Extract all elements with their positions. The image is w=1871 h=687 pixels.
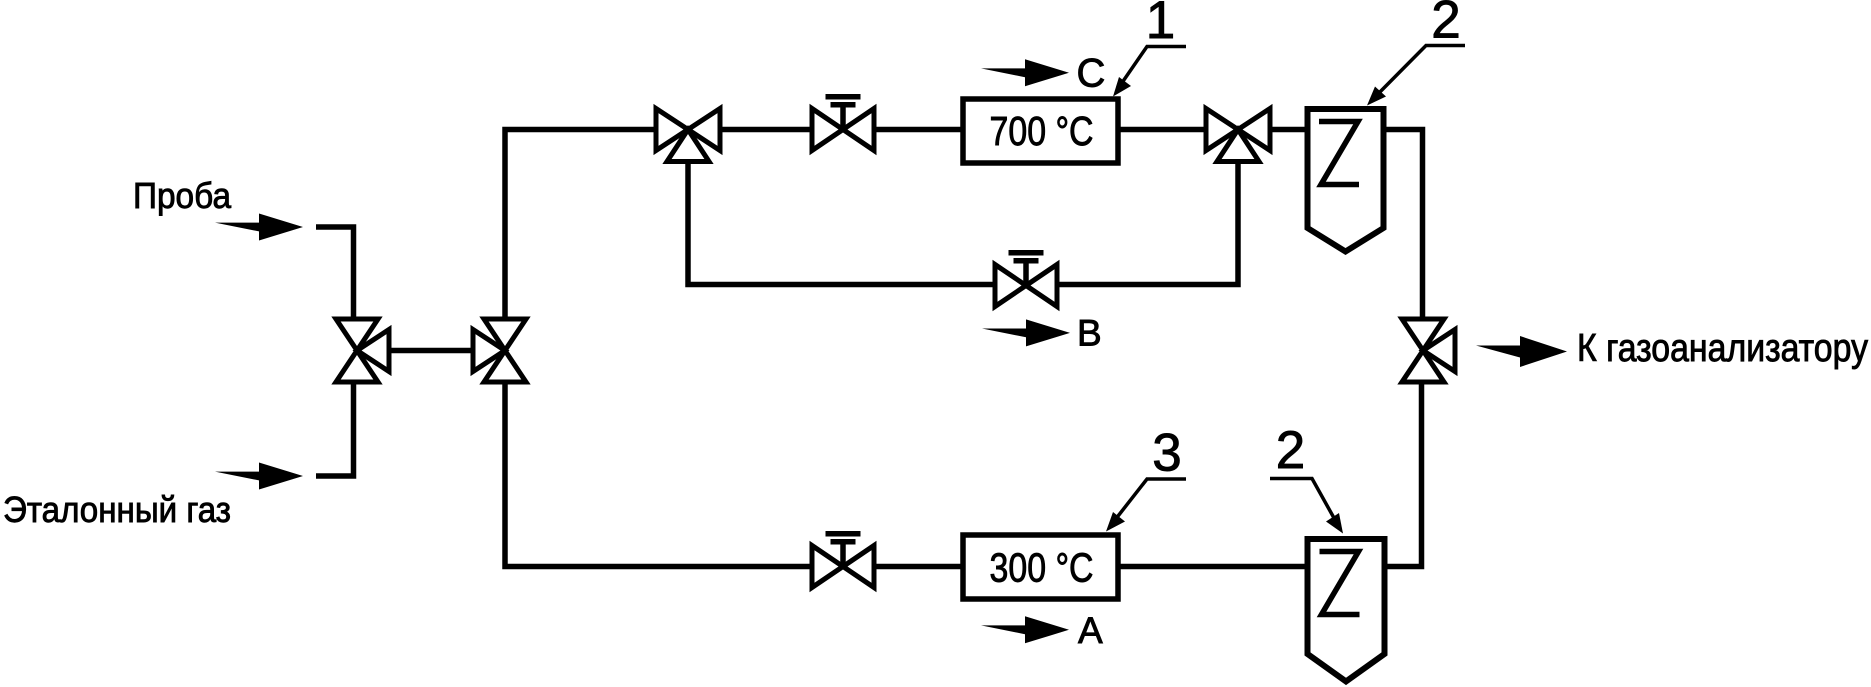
wire: G1 to heater 700 (872, 127, 963, 133)
callout leader 3 (1111, 479, 1186, 525)
callout leader 2 (1372, 46, 1465, 101)
wire: bypass right leg to V4 bottom (1056, 160, 1238, 285)
globe valve G3 (bottom rail) (812, 531, 874, 588)
flow arrow: sample inlet (215, 214, 303, 241)
valve V3 three-way (top rail / bypass) (656, 109, 720, 162)
svg-text:Проба: Проба (133, 175, 232, 216)
wire: V1 to V2 horizontal (385, 348, 475, 354)
svg-text:К газоанализатору: К газоанализатору (1577, 327, 1868, 370)
separator S1 (condenser pot, top line) (1308, 109, 1384, 252)
heater 1: 700 C box (963, 99, 1118, 163)
wire: S1 right elbow down to valve V5 top (1382, 130, 1423, 322)
svg-text:B: B (1077, 313, 1102, 354)
wire: reference-gas inlet elbow to valve V1 bottom (316, 380, 354, 476)
svg-text:3: 3 (1152, 424, 1181, 483)
flow arrow C (981, 59, 1069, 86)
svg-text:300 °C: 300 °C (990, 545, 1094, 591)
separator S2 Z mark (1320, 552, 1360, 615)
separator S1 Z mark (1319, 122, 1359, 185)
svg-text:A: A (1078, 610, 1103, 651)
valve V1 three-way (sample/reference selector) (336, 319, 389, 382)
wire: heater 300 to separator S2 (1118, 564, 1310, 570)
wire: sample inlet elbow to valve V1 top (316, 227, 354, 322)
globe valve G2 (bypass) (995, 250, 1057, 307)
wire: heater 700 to valve V4 (1118, 127, 1208, 133)
valve V2 three-way (line selector) (473, 319, 526, 382)
flow arrow: outlet to gas analyzer (1476, 336, 1567, 367)
svg-text:2: 2 (1431, 0, 1460, 50)
svg-text:700 °C: 700 °C (990, 108, 1094, 154)
svg-text:2: 2 (1276, 421, 1305, 480)
wire: S2 right elbow up to valve V5 bottom (1382, 380, 1422, 567)
wire: bypass left leg from V3 bottom (688, 160, 996, 285)
svg-text:Эталонный газ: Эталонный газ (3, 489, 231, 530)
callout leader 2 lower (1270, 479, 1339, 528)
wire: G3 to heater 300 (873, 564, 963, 570)
heater 3: 300 C box (963, 535, 1118, 599)
svg-text:C: C (1077, 52, 1106, 96)
wire: V3 to globe valve G1 (718, 127, 814, 133)
globe valve G1 (top rail) (812, 94, 874, 151)
svg-text:1: 1 (1146, 0, 1175, 50)
flow arrow A (981, 616, 1069, 643)
flow arrow: reference gas inlet (215, 463, 303, 490)
wire: V2 up and right to valve V3 (top rail left) (505, 130, 658, 325)
valve V4 three-way (top rail / bypass right) (1206, 109, 1270, 162)
callout leader 1 (1117, 47, 1186, 91)
wire: V2 down and right to globe valve G3 (bottom rail) (505, 378, 813, 567)
flow arrow B (982, 319, 1070, 346)
valve V5 three-way (outlet selector) (1402, 319, 1455, 382)
wire: V4 to separator S1 (1268, 127, 1309, 133)
separator S2 (condenser pot, bottom line) (1308, 539, 1385, 682)
